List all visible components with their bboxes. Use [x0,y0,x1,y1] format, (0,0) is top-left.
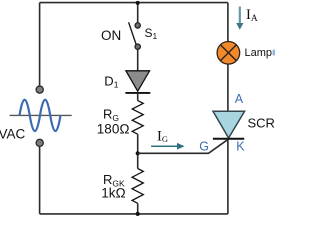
node junction top [136,1,140,5]
wire diode to RG [137,93,139,101]
svg-text:1kΩ: 1kΩ [101,185,126,200]
lamp [217,42,240,65]
svg-text:G: G [199,140,209,154]
node gate junction [136,151,140,155]
wire bottom [40,213,228,215]
diode D1 [125,71,150,93]
svg-text:SCR: SCR [248,116,275,131]
node junction bottom [136,212,140,216]
SCR U1 [213,111,245,139]
wire right upper [227,3,229,42]
label cut mark right edge [273,50,276,56]
wire switch to diode [137,50,139,71]
source VAC terminal bottom [36,139,43,146]
resistor RGK [132,169,143,204]
svg-text:180Ω: 180Ω [97,121,130,136]
wire gate [138,139,229,153]
wire top [40,2,228,4]
wire RGK to bottom [137,203,139,214]
current IG arrow [151,143,185,150]
svg-text:Lamp: Lamp [245,47,273,59]
switch S1 [129,22,141,49]
svg-text:A: A [235,92,244,106]
svg-text:K: K [236,140,245,154]
wire right lower [227,140,229,214]
svg-text:VAC: VAC [0,127,26,142]
source VAC axis [10,114,72,116]
current IA arrow [236,7,243,30]
wire RG to junction [137,134,139,168]
wire middle branch upper [137,3,139,23]
source VAC sine wave [20,100,61,131]
svg-text:ON: ON [101,28,121,43]
resistor RG [132,101,143,135]
wire right middle [227,64,229,111]
source VAC terminal top [36,86,43,93]
wire left upper [39,3,41,86]
wire left lower [39,147,41,214]
